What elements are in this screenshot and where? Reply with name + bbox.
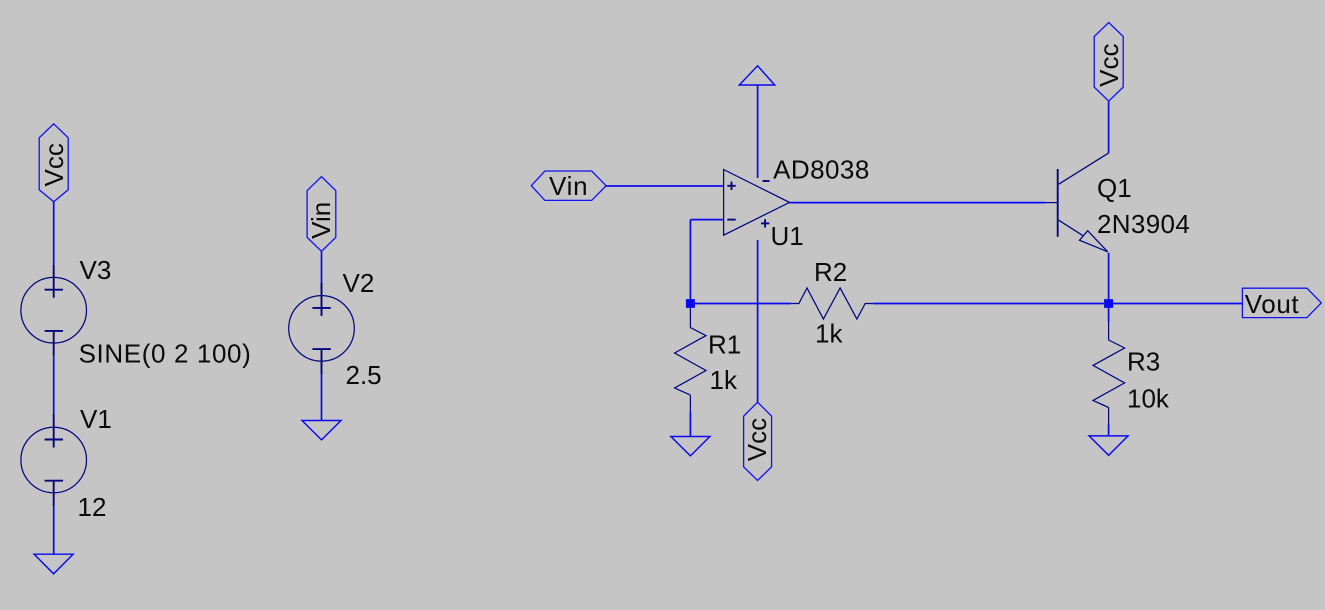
svg-text:Vin: Vin xyxy=(306,202,336,239)
svg-text:2N3904: 2N3904 xyxy=(1097,209,1190,239)
svg-text:1k: 1k xyxy=(815,319,843,349)
svg-text:V1: V1 xyxy=(80,404,112,434)
svg-text:12: 12 xyxy=(78,492,107,522)
svg-text:Vcc: Vcc xyxy=(1094,44,1124,87)
svg-text:SINE(0 2 100): SINE(0 2 100) xyxy=(79,338,252,368)
svg-text:Vin: Vin xyxy=(549,171,589,201)
svg-text:R3: R3 xyxy=(1127,346,1160,376)
svg-text:R1: R1 xyxy=(708,329,741,359)
svg-text:AD8038: AD8038 xyxy=(773,155,870,185)
svg-text:2.5: 2.5 xyxy=(346,360,382,390)
svg-text:R2: R2 xyxy=(814,257,847,287)
svg-text:Q1: Q1 xyxy=(1097,173,1132,203)
svg-text:Vcc: Vcc xyxy=(39,143,69,186)
svg-text:U1: U1 xyxy=(771,221,804,251)
svg-text:V2: V2 xyxy=(343,268,375,298)
svg-text:10k: 10k xyxy=(1127,384,1170,414)
svg-text:1k: 1k xyxy=(710,365,738,395)
svg-text:Vout: Vout xyxy=(1245,289,1300,319)
svg-text:V3: V3 xyxy=(80,255,112,285)
svg-text:Vcc: Vcc xyxy=(742,418,772,461)
